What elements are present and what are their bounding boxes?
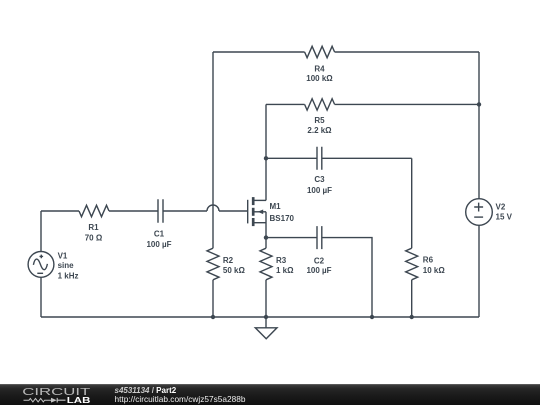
voltage source V2 <box>466 199 493 226</box>
wire: R3 to ground rail <box>265 280 267 317</box>
svg-text:C3: C3 <box>314 175 325 184</box>
wire: right vertical lower (V2 to ground rail) <box>478 225 480 317</box>
svg-text:10 kΩ: 10 kΩ <box>423 266 446 275</box>
wire: right vertical upper (top rail to V2) <box>478 52 480 199</box>
junction node: R2 at ground rail <box>211 315 215 319</box>
wire: R5 rail left segment <box>266 103 305 105</box>
resistor R6 <box>406 248 418 280</box>
wire: M1 body/source vertical <box>265 212 267 238</box>
junction node: M1 source node <box>264 235 268 239</box>
junction node: R6 at ground rail <box>410 315 414 319</box>
svg-text:C1: C1 <box>154 230 165 239</box>
svg-text:1 kHz: 1 kHz <box>58 271 79 280</box>
wire: C3 right lead <box>322 157 412 159</box>
svg-text:R1: R1 <box>88 223 99 232</box>
logo resistor zigzag <box>24 399 52 402</box>
wire: C3 left lead <box>266 157 317 159</box>
svg-text:100 µF: 100 µF <box>307 186 332 195</box>
capacitor C1 <box>158 199 163 222</box>
wire hop over left vertical <box>207 205 219 211</box>
svg-text:M1: M1 <box>270 202 282 211</box>
capacitor C2 <box>317 226 322 249</box>
svg-text:BS170: BS170 <box>270 214 295 223</box>
svg-text:2.2 kΩ: 2.2 kΩ <box>307 126 332 135</box>
wire: top rail left segment <box>213 51 305 53</box>
wire: C2 right lead and drop <box>322 238 372 317</box>
svg-text:http://circuitlab.com/cwjz57s5: http://circuitlab.com/cwjz57s5a288b <box>115 394 246 404</box>
svg-text:R5: R5 <box>314 116 325 125</box>
footer bar <box>0 384 540 405</box>
svg-text:sine: sine <box>58 261 75 270</box>
svg-text:R6: R6 <box>423 256 434 265</box>
svg-text:100 µF: 100 µF <box>306 266 331 275</box>
junction node: C3 tap on drain vertical <box>264 156 268 160</box>
wire: drain vertical (R5 corner down to M1 drain) <box>265 104 267 200</box>
wire: R6 vertical lower <box>411 280 413 317</box>
wire: R1 to C1 <box>109 210 158 212</box>
svg-text:50 kΩ: 50 kΩ <box>223 266 246 275</box>
wire: ground rail <box>41 316 479 318</box>
svg-text:100 kΩ: 100 kΩ <box>306 74 333 83</box>
transistor M1 gate bar <box>247 200 249 224</box>
wire: left vertical upper (top rail to R2) <box>212 52 214 248</box>
logo diode <box>57 398 65 403</box>
svg-text:R2: R2 <box>223 256 234 265</box>
wire: V1 bottom to ground rail <box>40 277 42 317</box>
svg-text:100 µF: 100 µF <box>146 240 171 249</box>
ground symbol <box>265 317 267 328</box>
svg-text:70 Ω: 70 Ω <box>85 233 103 242</box>
transistor M1 drain pin <box>253 199 266 201</box>
resistor R2 <box>207 248 219 280</box>
wire: source node down to R3 <box>265 238 267 249</box>
wire: V1 to R1 <box>41 211 79 252</box>
svg-text:R4: R4 <box>314 65 325 74</box>
svg-text:V1: V1 <box>58 251 68 260</box>
junction node: C2 at ground rail <box>370 315 374 319</box>
svg-text:V2: V2 <box>496 203 506 212</box>
junction node: R5 right at V2 rail <box>477 102 481 106</box>
svg-text:1 kΩ: 1 kΩ <box>276 266 294 275</box>
wire: R6 vertical upper <box>411 158 413 248</box>
resistor R1 <box>79 205 109 216</box>
wire: C1 to hop <box>163 210 207 212</box>
wire: R5 rail right segment <box>335 103 479 105</box>
transistor M1 arrow head <box>258 210 264 215</box>
wire: C2 left lead <box>266 237 317 239</box>
svg-text:C2: C2 <box>314 256 325 265</box>
svg-text:LAB: LAB <box>67 395 91 405</box>
wire: top rail right segment <box>335 51 479 53</box>
wire: hop to M1 gate <box>219 210 247 212</box>
transistor M1 body pin with arrow <box>253 211 266 213</box>
capacitor C3 <box>317 147 322 170</box>
svg-text:15 V: 15 V <box>496 213 513 222</box>
resistor R4 <box>305 46 335 57</box>
resistor R3 <box>260 248 272 280</box>
transistor M1 channel bars <box>252 197 255 226</box>
resistor R5 <box>305 99 335 110</box>
junction node: ground tap <box>264 315 268 319</box>
svg-text:R3: R3 <box>276 256 287 265</box>
wire: left vertical lower (R2 to ground rail) <box>212 280 214 317</box>
transistor M1 source pin <box>253 222 266 224</box>
voltage source V1 <box>28 252 54 278</box>
